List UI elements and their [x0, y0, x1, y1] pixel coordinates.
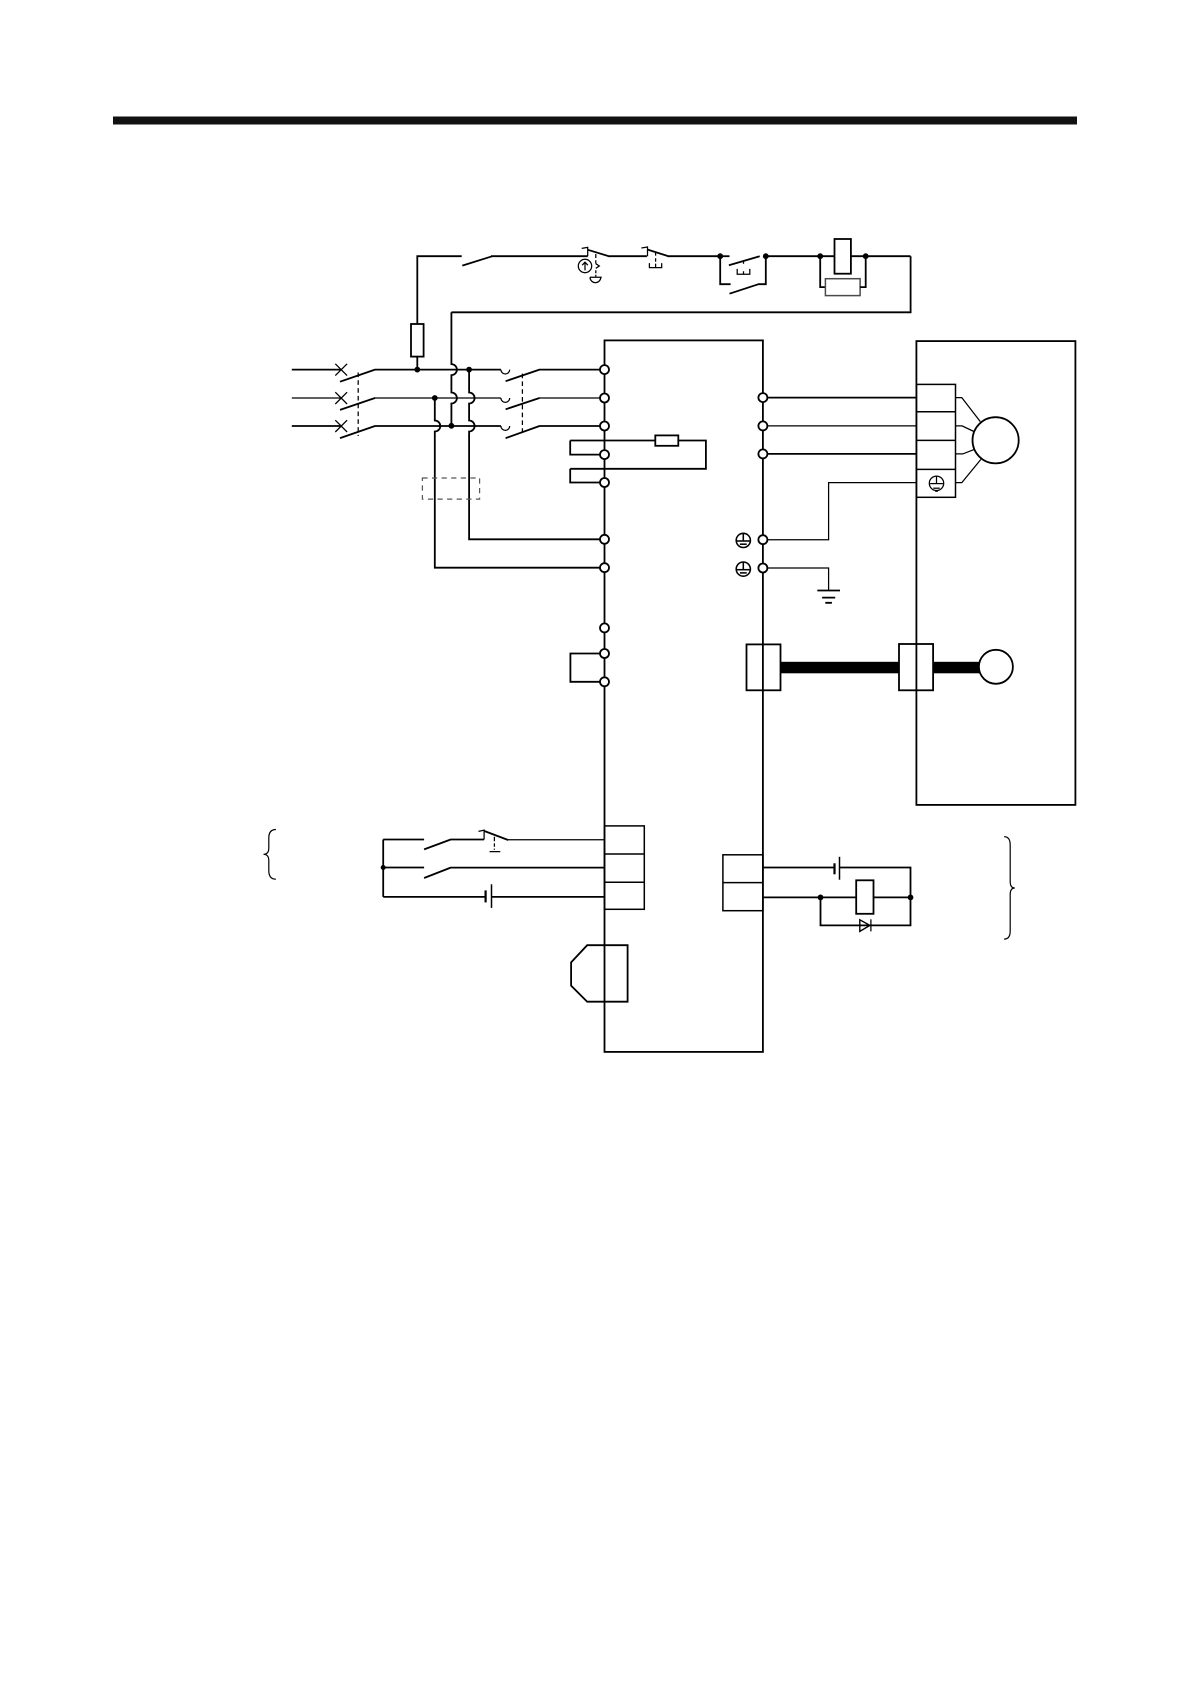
wire PE to earth: [767, 568, 828, 591]
PE symbol 2: [736, 562, 750, 576]
motor PE symbol: [929, 476, 943, 491]
MC coil: [835, 239, 851, 274]
emergency stop mushroom head: [590, 277, 602, 282]
terminal CN pin 1: [600, 623, 609, 632]
wire battery to relay: [840, 868, 911, 898]
wire W: [767, 453, 916, 455]
battery input short plate: [485, 890, 487, 902]
wire phase 1 to MC: [375, 369, 501, 371]
wire control return drop with hops: [451, 312, 457, 426]
MC pole 3 fixed contact: [501, 426, 510, 430]
PE symbol 1: [736, 533, 750, 547]
contact input 2 blade: [424, 868, 451, 878]
terminal L2: [600, 394, 609, 403]
NFB mechanical link dashed: [357, 373, 359, 437]
surge absorber: [825, 279, 860, 296]
wire phase 2 to L2: [539, 397, 600, 399]
NFB pole 3 cross: [335, 420, 347, 432]
wire phase 2 to MC: [375, 397, 501, 399]
encoder: [979, 650, 1013, 684]
encoder cable thick: [781, 662, 900, 674]
node on phase 3: [449, 423, 455, 429]
terminal C: [600, 478, 609, 487]
terminal PE2: [758, 564, 767, 573]
motor lead V: [956, 426, 974, 432]
node relay right: [908, 895, 914, 901]
battery 24V long plate: [839, 857, 841, 880]
emergency stop contact crossbar: [582, 247, 588, 256]
wire: [450, 839, 484, 841]
pushbutton ON blade: [729, 256, 760, 265]
contact input 1 blade: [424, 840, 451, 850]
brace left: [264, 830, 276, 880]
wire output 2: [763, 896, 856, 898]
servo amplifier outline: [605, 340, 763, 1052]
CN1 input block: [605, 826, 645, 909]
forced stop blade: [484, 831, 508, 840]
diode: [860, 920, 870, 932]
terminal CN pin 3: [600, 677, 609, 686]
motor side encoder connector: [899, 644, 933, 690]
NFB pole 3 blade: [340, 426, 375, 438]
wire control feed vertical from fuse: [417, 256, 461, 324]
wire input common vertical: [382, 840, 384, 897]
power line phase 3: [292, 425, 341, 427]
node on L1: [414, 367, 420, 373]
encoder cable thick 2: [933, 662, 980, 674]
contact SK dashed link and release bracket: [649, 253, 661, 268]
wire fuse to L1: [416, 357, 418, 370]
CN3 connector pentagon: [571, 945, 628, 1002]
wire control return: [451, 256, 910, 312]
wire: [851, 255, 911, 257]
surge absorber branch: [820, 256, 825, 287]
internal regenerative circuit line P: [570, 440, 655, 442]
wire PE to motor: [767, 483, 916, 540]
wire: [669, 255, 720, 257]
terminal L1: [600, 365, 609, 374]
MC pole 1 blade: [506, 370, 540, 382]
regenerative resistor: [655, 435, 678, 445]
node on phase 2 for L21: [432, 395, 438, 401]
NFB pole 1 blade: [340, 370, 375, 382]
pushbutton ON stub: [720, 255, 729, 257]
wire: [491, 255, 588, 257]
CN1 output block: [723, 855, 763, 911]
diode branch: [821, 897, 911, 925]
forced stop crossbar: [479, 830, 485, 839]
wire relay right: [874, 896, 911, 898]
MC pole 2 blade: [506, 398, 540, 409]
motor circle: [973, 417, 1019, 463]
header bar: [113, 117, 1077, 125]
wire input 2 stub: [383, 867, 424, 869]
wire input 3 to CN1: [492, 896, 605, 898]
emergency stop dashed actuator link: [596, 254, 600, 277]
power line phase 1: [292, 369, 341, 371]
NFB pole 1 cross: [335, 364, 347, 376]
diode cathode bar: [870, 919, 872, 931]
node junction: [863, 253, 869, 259]
CN2 connector: [747, 644, 781, 690]
motor outline: [916, 341, 1075, 805]
wire phase 3 to MC: [375, 425, 501, 427]
wire output 1: [763, 867, 835, 869]
NFB pole 2 blade: [340, 398, 375, 410]
node input common: [381, 865, 386, 870]
wire U: [767, 397, 916, 399]
terminal V: [758, 421, 767, 430]
power line phase 2: [292, 397, 341, 399]
wire phase 1 to L1: [539, 369, 600, 371]
wire: [766, 255, 835, 257]
MC mechanical link dashed: [521, 374, 523, 436]
internal regenerative circuit right: [570, 441, 706, 469]
wire L21 drop with hop: [435, 398, 600, 568]
wire input 1 to CN1: [508, 839, 605, 841]
relay coil: [856, 880, 873, 914]
battery input long plate: [491, 884, 493, 908]
wire input 2 to CN1: [450, 867, 604, 869]
self-hold contact branch: [720, 256, 766, 294]
wire V: [767, 425, 916, 427]
jumper short bar CN pins: [570, 654, 600, 682]
node on phase 1 for L11: [466, 367, 472, 373]
node relay left: [818, 895, 824, 901]
motor lead W: [956, 449, 975, 454]
MC pole 1 fixed contact: [501, 370, 510, 374]
wire L11 drop with hops: [469, 370, 600, 540]
battery 24V short plate: [833, 863, 835, 874]
terminal W: [758, 449, 767, 458]
emergency stop contact blade: [588, 250, 610, 257]
wire input 1 stub: [383, 839, 424, 841]
wire input 3: [383, 896, 485, 898]
terminal PE1: [758, 535, 767, 544]
motor terminal box: [916, 384, 955, 497]
terminal P: [600, 450, 609, 459]
wire phase 3 to L3: [539, 425, 600, 427]
fuse: [411, 324, 424, 357]
pushbutton E actuator: [737, 262, 750, 275]
forced stop dashed actuator: [490, 837, 501, 852]
brace right: [1004, 837, 1015, 939]
wire: [609, 255, 647, 257]
short bar P loop: [570, 441, 600, 455]
motor lead PE: [956, 459, 981, 482]
short bar C loop: [570, 469, 600, 483]
switch OFF blade: [462, 256, 492, 265]
NFB pole 2 cross: [335, 392, 347, 404]
MC pole 2 fixed contact: [501, 398, 510, 402]
motor lead U: [956, 398, 981, 422]
node junction: [763, 253, 769, 259]
dashed option box: [422, 478, 479, 499]
terminal L11: [600, 535, 609, 544]
surge absorber branch right: [860, 256, 866, 287]
emergency stop twist-release circle with arrow: [578, 259, 591, 272]
node junction: [817, 253, 823, 259]
terminal L3: [600, 422, 609, 431]
contact SK blade: [648, 250, 670, 257]
MC pole 3 blade: [506, 426, 540, 438]
earth ground: [817, 591, 840, 603]
terminal L21: [600, 563, 609, 572]
node junction: [717, 253, 723, 259]
contact SK crossbar: [641, 247, 647, 256]
terminal CN pin 2: [600, 649, 609, 658]
terminal U: [758, 393, 767, 402]
